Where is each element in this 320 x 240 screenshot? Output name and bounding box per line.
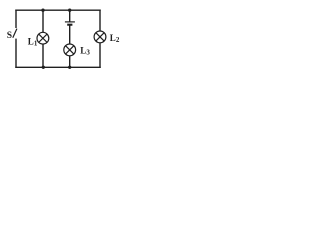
wire battery to lamp L3 [69,25,71,44]
wire top [15,9,100,11]
wire branch L1 lower [42,44,44,67]
node junction dot bottom L3 [68,66,71,69]
node junction dot bottom L1 [42,66,45,69]
svg-text:S: S [7,31,12,41]
svg-text:L1: L1 [28,37,38,48]
svg-text:L2: L2 [110,33,120,44]
wire lamp L3 lower [69,56,71,67]
wire left upper (above switch) [15,10,17,29]
switch S blade [13,29,17,38]
wire bottom [15,66,100,68]
wire right upper (to lamp L2) [99,10,101,32]
wire right lower (from lamp L2) [99,43,101,68]
wire left lower (below switch) [15,39,17,68]
battery negative plate (short thick) [67,24,72,26]
node junction dot top L1 [41,9,44,12]
svg-text:L3: L3 [80,45,90,56]
battery positive plate (long) [65,21,75,23]
lamp L1 [37,32,49,44]
wire branch L1 upper [42,10,44,32]
wire battery top lead [69,10,71,21]
lamp L3 [64,44,76,56]
node junction dot top battery [68,9,71,12]
lamp L2 [94,31,106,43]
